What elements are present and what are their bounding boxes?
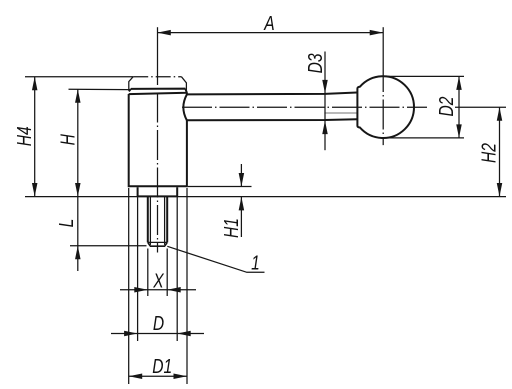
dimension H2 [497,107,503,196]
H2 extension line right [455,106,506,108]
phantom raised-cap chain outline [25,77,186,93]
body-arm junction arc [183,94,187,120]
dimension A [157,30,383,36]
svg-text:D: D [153,312,164,334]
dimension D2 extension lines [384,76,464,137]
body top face [129,89,187,95]
dimension H1 [188,164,252,237]
dimension H and L shared line [75,89,81,271]
bottom long extension line [25,196,506,198]
dimension D [111,331,204,337]
svg-text:X: X [152,270,164,292]
svg-text:D3: D3 [304,53,326,73]
stud thread minor lines [150,197,164,245]
centerline body axis [157,27,159,252]
svg-text:A: A [263,12,274,34]
extension lines below neck (D) [138,197,178,341]
ball knob [357,76,414,138]
svg-text:D1: D1 [152,355,172,377]
dimension D1 [129,373,187,379]
leader line to item 1 [167,246,264,272]
extension lines below body (D1) [129,188,187,384]
svg-text:D2: D2 [435,97,457,117]
centerline ball axis vertical [382,27,384,145]
centerline arm axis horizontal [182,106,427,108]
svg-text:L: L [55,219,77,228]
arm (handle) outline [187,93,357,121]
stud end chamfer [148,242,167,246]
lower stud extension line [70,245,147,247]
threaded stud major diameter [148,197,167,243]
svg-text:H1: H1 [220,218,242,238]
svg-text:H4: H4 [13,126,35,146]
dimension H4 [32,77,38,197]
H extension line [69,88,131,90]
arm neck shoulder line [324,112,357,114]
dimension D3 [322,52,328,151]
extension lines below stud (X) [148,249,167,297]
dimension X [120,287,196,293]
svg-text:H: H [56,134,78,145]
dimension D2 [456,76,462,137]
neck washer [137,187,178,196]
svg-text:H2: H2 [478,143,500,163]
body outline [128,93,188,187]
svg-text:1: 1 [251,252,260,274]
